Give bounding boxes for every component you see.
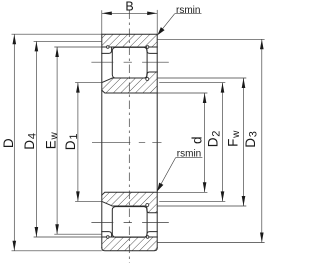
extension line D1 bottom [75,200,102,202]
dimension line Ew [56,47,58,234]
arrow D4 down [35,227,39,237]
arrow D2 down [221,191,225,201]
outer ring top OD edge [102,33,157,35]
dimension line D [13,34,15,251]
extension line D4 bottom [34,236,102,238]
leader underline rsmin bottom [176,157,203,159]
svg-text:D: D [1,138,16,148]
extension line D bottom [12,250,102,252]
arrow D down [13,241,17,251]
dimension line B [102,12,157,14]
inner ring top shoulder slope [102,78,113,83]
extension line D2 top [159,82,225,84]
arrow D1 down [76,191,80,201]
arrow d up [203,93,207,103]
arrow D4 up [35,41,39,51]
fillet circle inner flange top [146,78,149,81]
fillet circle outer top right [146,46,149,49]
dimension line D3 [261,39,263,242]
extension line Fw top [157,77,246,79]
extension line D3 top [157,38,264,40]
arrow D3 down [260,233,264,243]
fillet circle inner flange bottom [146,204,149,207]
inner ring bottom raceway Fw [112,205,147,207]
fillet circle outer bottom left [107,236,110,239]
inner ring top right flange [147,72,157,78]
dimension line Fw [243,78,245,206]
dimension line D4 [35,41,37,237]
dimension line D1 [77,83,79,202]
hatch inner ring bottom [102,192,157,213]
wire left face line [101,34,103,248]
svg-text:B: B [125,0,133,14]
arrow D1 up [76,83,80,93]
arrow Ew up [55,47,59,57]
outer ring top right lip [147,47,157,53]
arrow B left [102,12,112,16]
inner ring top bore line [102,90,157,93]
outer ring bottom raceway Ew [102,236,157,238]
svg-text:rsmin: rsmin [177,149,201,160]
roller bottom [112,207,147,238]
hatch outer ring top band [102,34,157,47]
arrow D up [13,34,17,44]
outer ring top left lip [102,47,112,53]
arrow Fw down [242,196,246,206]
centerline vertical axis [128,11,130,264]
svg-text:d: d [189,136,204,144]
hatch inner ring top [102,72,157,93]
fillet circle outer bottom right [146,236,149,239]
dimension line d [204,93,206,192]
extension line D2 bottom [159,200,225,202]
svg-text:rsmin: rsmin [176,5,200,16]
leader line rsmin top [159,14,175,34]
extension line Ew top [54,46,102,48]
arrow d down [203,182,207,192]
leader line rsmin bottom [158,158,175,189]
leader arrow rsmin bottom [157,183,163,192]
inner ring top raceway Fw [112,77,147,79]
roller top [112,47,147,78]
arrow Ew down [55,224,59,234]
inner ring bottom shoulder slope [102,201,113,206]
extension line B right [156,10,158,34]
extension line d bottom [157,191,207,193]
centerline horizontal axis [92,141,162,143]
inner ring bottom bore line [102,192,157,195]
arrow D3 up [260,39,264,49]
arrow B right [147,12,157,16]
extension line d top [157,92,207,94]
extension line D3 bottom [157,242,264,244]
arrow D2 up [221,83,225,93]
outer ring bottom OD edge [102,248,157,251]
dimension line D2 [222,83,224,202]
extension line Fw bottom [157,205,246,207]
outer ring top raceway Ew [102,46,157,48]
wire right face line [156,34,158,248]
extension line B left [101,10,103,34]
extension line D1 top [75,82,102,84]
outer ring bottom right lip [147,232,157,237]
leader underline rsmin top [175,13,202,15]
extension line D top [12,33,102,35]
centerline roller bottom [91,222,168,224]
extension line D4 top [34,40,102,42]
fillet circle outer top left [107,46,110,49]
centerline roller top [91,61,168,63]
leader arrow rsmin top [157,27,164,35]
outer ring bottom left lip [102,232,112,237]
inner ring bottom right flange [147,206,157,213]
arrow Fw up [242,78,246,88]
extension line Ew bottom [54,233,102,235]
hatch outer ring bottom band [102,237,157,251]
